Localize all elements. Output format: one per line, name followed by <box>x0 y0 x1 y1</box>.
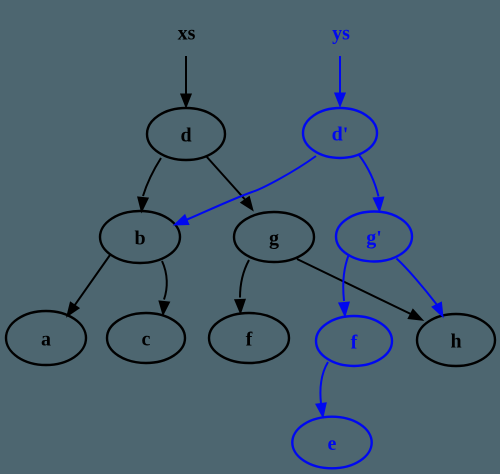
svg-text:b: b <box>134 228 145 250</box>
svg-text:g': g' <box>366 227 382 249</box>
svg-text:e: e <box>328 433 337 455</box>
svg-text:ys: ys <box>332 23 350 45</box>
svg-text:f: f <box>351 332 358 354</box>
svg-text:g: g <box>269 228 279 250</box>
svg-text:h: h <box>450 331 461 353</box>
svg-text:a: a <box>41 329 51 351</box>
svg-text:c: c <box>142 329 151 351</box>
svg-text:f: f <box>246 329 253 351</box>
svg-text:d': d' <box>332 124 349 146</box>
svg-text:xs: xs <box>178 23 196 45</box>
svg-text:d: d <box>180 125 191 147</box>
